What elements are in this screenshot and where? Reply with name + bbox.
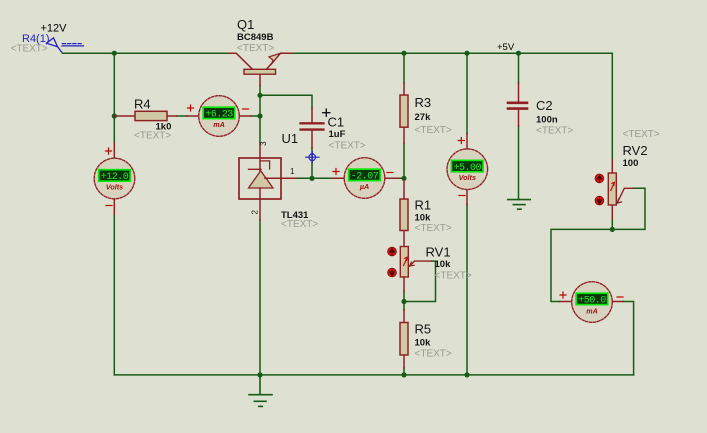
svg-text:<TEXT>: <TEXT> xyxy=(415,349,452,360)
svg-text:+50.0: +50.0 xyxy=(578,296,606,307)
svg-text:Q1: Q1 xyxy=(237,17,254,32)
svg-text:<TEXT>: <TEXT> xyxy=(11,44,48,55)
wire RV1 wiper loop xyxy=(404,261,436,301)
M3 plus mark xyxy=(333,169,339,175)
svg-text:+5V: +5V xyxy=(497,42,515,53)
wire resistor column x=404 xyxy=(403,53,405,375)
ammeter M1 (mA, top) xyxy=(187,96,251,137)
svg-text:R3: R3 xyxy=(415,95,432,110)
wire R4 row xyxy=(177,115,261,117)
svg-text:<TEXT>: <TEXT> xyxy=(329,140,366,151)
V2 plus mark xyxy=(458,138,464,144)
svg-text:1: 1 xyxy=(290,167,295,176)
wire node to C1 top xyxy=(260,95,312,108)
capacitor C2 xyxy=(508,83,527,126)
svg-text:10k: 10k xyxy=(415,212,432,223)
svg-text:100n: 100n xyxy=(536,115,558,126)
ammeter M3 (uA) xyxy=(332,158,398,199)
node marker (blue crosshair) on C1 lead xyxy=(306,152,319,163)
svg-text:-2.07: -2.07 xyxy=(351,172,379,183)
wire C1 bottom to node xyxy=(311,148,313,178)
svg-text:Volts: Volts xyxy=(459,173,476,182)
ground (bottom centre) xyxy=(249,375,272,407)
C1 polarity plus xyxy=(323,109,330,116)
voltmeter V2 (+5V) xyxy=(447,134,488,205)
potentiometer RV2 xyxy=(608,160,633,219)
svg-text:R5: R5 xyxy=(415,322,432,337)
wire +5V rail top xyxy=(292,53,612,160)
svg-text:R1: R1 xyxy=(415,198,432,213)
svg-text:RV1: RV1 xyxy=(426,245,451,260)
ground (under C2) xyxy=(508,199,531,209)
wire +12V rail top xyxy=(63,52,230,54)
ammeter M2 (+50mA, bottom right) xyxy=(560,282,624,323)
wire U1 pin1 row xyxy=(296,177,404,179)
svg-text:10k: 10k xyxy=(435,259,452,270)
svg-text:<TEXT>: <TEXT> xyxy=(623,129,660,140)
svg-text:C1: C1 xyxy=(328,115,345,130)
svg-text:<TEXT>: <TEXT> xyxy=(134,131,171,142)
RV2 down button xyxy=(595,196,604,205)
capacitor C1 xyxy=(301,108,324,148)
svg-text:10k: 10k xyxy=(415,338,432,349)
M3 minus mark xyxy=(387,172,393,174)
V1 minus mark xyxy=(106,205,112,207)
svg-text:<TEXT>: <TEXT> xyxy=(415,125,452,136)
potentiometer RV1 xyxy=(400,247,431,292)
M1 plus mark xyxy=(188,105,194,111)
svg-text:BC849B: BC849B xyxy=(237,32,274,43)
M2 plus mark xyxy=(560,292,566,298)
svg-text:1uF: 1uF xyxy=(329,129,346,140)
svg-text:<TEXT>: <TEXT> xyxy=(237,43,274,54)
wire Q1 base to node xyxy=(259,86,261,144)
wire RV2 wiper loop xyxy=(612,188,645,229)
wire M2 right to bottom rail xyxy=(623,302,634,375)
V1 plus mark xyxy=(106,148,112,154)
svg-text:RV2: RV2 xyxy=(623,143,648,158)
svg-text:<TEXT>: <TEXT> xyxy=(435,271,472,282)
resistor R1 xyxy=(400,180,408,247)
svg-text:R4: R4 xyxy=(134,96,151,111)
svg-text:100: 100 xyxy=(623,158,639,169)
wire C2 branch x=518.5 xyxy=(518,53,520,199)
wire U1 pin2 down xyxy=(259,220,261,375)
power terminal +12V (blue) xyxy=(47,38,84,53)
resistor R3 xyxy=(400,83,408,143)
svg-text:<TEXT>: <TEXT> xyxy=(415,223,452,234)
wire voltmeter V2 column x=467 xyxy=(466,53,468,375)
svg-text:U1: U1 xyxy=(282,131,299,146)
svg-text:Volts: Volts xyxy=(106,182,123,191)
V2 minus mark xyxy=(459,195,465,197)
svg-text:+6.23: +6.23 xyxy=(205,110,233,121)
RV1 up button xyxy=(388,247,397,256)
wire left column x=114 xyxy=(113,53,115,375)
resistor R5 xyxy=(400,310,408,368)
svg-text:27k: 27k xyxy=(415,112,432,123)
M1 minus mark xyxy=(243,108,249,110)
svg-text:mA: mA xyxy=(586,306,598,315)
voltmeter V1 (+12V) xyxy=(94,143,135,215)
svg-text:µA: µA xyxy=(359,182,369,191)
resistor R4 xyxy=(114,111,176,120)
svg-text:3: 3 xyxy=(259,141,268,146)
svg-text:<TEXT>: <TEXT> xyxy=(536,125,573,136)
svg-text:2: 2 xyxy=(250,210,259,215)
svg-text:C2: C2 xyxy=(536,98,553,113)
op-amp U1 TL431 body xyxy=(239,143,296,220)
wire bottom ground rail xyxy=(114,374,633,376)
wire node to ammeter M2 xyxy=(551,229,612,301)
M2 minus mark xyxy=(617,296,623,298)
svg-text:mA: mA xyxy=(213,120,225,129)
wire RV2 bottom node xyxy=(611,219,613,229)
svg-text:<TEXT>: <TEXT> xyxy=(281,219,318,230)
RV2 up button xyxy=(595,174,604,183)
RV1 down button xyxy=(388,268,397,277)
transistor Q1 xyxy=(229,53,292,85)
